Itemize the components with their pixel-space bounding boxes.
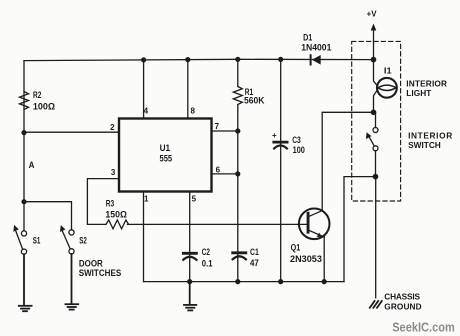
svg-text:D1: D1 — [303, 33, 312, 43]
svg-text:+V: +V — [367, 9, 377, 19]
switch S1 — [13, 225, 26, 254]
node R1 bottom dot — [235, 279, 240, 284]
node pin6 dot — [235, 171, 240, 176]
svg-text:INTERIOR: INTERIOR — [408, 130, 452, 140]
svg-text:S1: S1 — [33, 236, 41, 246]
svg-text:Q1: Q1 — [291, 243, 301, 253]
resistor R3 — [106, 220, 129, 229]
IC U1 555 box — [119, 119, 212, 192]
lamp I1 interior light — [374, 60, 397, 113]
resistor R2 — [20, 92, 29, 110]
node door-switch junction dot — [21, 199, 26, 204]
svg-text:C2: C2 — [202, 247, 210, 257]
svg-text:560K: 560K — [244, 96, 265, 106]
wire pin3 to R3 — [87, 179, 119, 225]
node pin8 top dot — [185, 57, 190, 62]
svg-text:1N4001: 1N4001 — [301, 43, 331, 53]
node pin4 top dot — [141, 57, 146, 62]
ground symbol S1 — [19, 254, 32, 311]
svg-text:555: 555 — [160, 153, 173, 163]
pin number labels — [110, 107, 220, 204]
svg-text:150Ω: 150Ω — [105, 209, 127, 219]
wire R3 to Q1 base — [128, 223, 307, 225]
diode D1 — [311, 55, 321, 65]
svg-text:U1: U1 — [160, 143, 171, 153]
wire chassis drop — [375, 177, 377, 298]
interior switch — [366, 112, 378, 176]
wire pin7 horizontal — [212, 130, 238, 132]
wire C3 branch vertical — [280, 59, 282, 281]
wire switch to ground rail — [344, 177, 376, 282]
svg-text:7: 7 — [215, 122, 220, 131]
wire pin2 horizontal — [24, 131, 119, 133]
svg-text:3: 3 — [111, 168, 116, 177]
svg-text:47: 47 — [250, 258, 259, 268]
node C3 bottom dot — [278, 279, 283, 284]
svg-text:A: A — [29, 160, 35, 170]
resistor R1 — [233, 87, 242, 105]
svg-text:100: 100 — [293, 145, 305, 155]
wire R1 branch vertical — [237, 59, 239, 281]
svg-text:+: + — [272, 131, 277, 140]
svg-text:SWITCH: SWITCH — [408, 140, 441, 150]
svg-text:2N3053: 2N3053 — [290, 254, 322, 264]
wire to S2 — [24, 202, 72, 230]
wire pin1 drop — [143, 192, 145, 282]
wire pin4 drop — [143, 60, 145, 119]
chassis ground symbol — [370, 301, 382, 308]
wire pin5 drop — [189, 192, 191, 282]
wire emitter drop — [323, 237, 325, 282]
node R1 top dot — [235, 57, 240, 62]
svg-text:LIGHT: LIGHT — [406, 88, 431, 98]
wire collector to switch — [322, 112, 373, 210]
node emitter dot — [322, 279, 327, 284]
svg-text:SWITCHES: SWITCHES — [79, 268, 122, 278]
svg-text:I1: I1 — [384, 65, 392, 75]
svg-text:2: 2 — [110, 123, 115, 132]
svg-text:R3: R3 — [106, 199, 114, 209]
node A junction dot — [21, 130, 26, 135]
switch S2 — [60, 225, 74, 254]
svg-text:6: 6 — [216, 166, 221, 175]
node C3 top dot — [278, 57, 283, 62]
node +V junction dot — [371, 57, 377, 63]
svg-text:R2: R2 — [33, 90, 41, 100]
svg-text:S2: S2 — [79, 236, 87, 246]
transistor Q1 — [299, 209, 330, 240]
wire top rail — [24, 59, 374, 60]
svg-text:CHASSIS: CHASSIS — [384, 291, 420, 301]
svg-text:4: 4 — [144, 107, 149, 116]
wire bottom ground rail — [144, 281, 345, 283]
svg-text:8: 8 — [190, 107, 195, 116]
wire pin8 drop — [187, 60, 189, 119]
node lamp bottom dot — [371, 110, 377, 116]
ground symbol S2 — [65, 254, 78, 310]
wire left rail — [23, 61, 25, 231]
+V supply arrow — [371, 24, 377, 60]
node switch bottom dot — [373, 174, 379, 180]
svg-text:C3: C3 — [292, 135, 301, 145]
svg-text:GROUND: GROUND — [384, 301, 421, 311]
svg-text:100Ω: 100Ω — [33, 101, 55, 111]
node pin7 dot — [235, 128, 240, 133]
ground symbol below C2 — [184, 282, 196, 311]
svg-text:1: 1 — [144, 194, 149, 203]
svg-text:DOOR: DOOR — [79, 258, 103, 268]
capacitor C3 — [274, 142, 287, 148]
svg-text:5: 5 — [192, 194, 197, 203]
capacitor C2 — [183, 253, 196, 259]
node C2 ground dot — [187, 279, 192, 284]
capacitor C1 — [233, 253, 246, 259]
svg-text:C1: C1 — [250, 247, 259, 257]
wire pin6 horizontal — [212, 173, 238, 175]
svg-text:0.1: 0.1 — [202, 259, 213, 269]
dashed enclosure box — [352, 41, 401, 201]
svg-text:SeekIC.com: SeekIC.com — [392, 321, 455, 335]
